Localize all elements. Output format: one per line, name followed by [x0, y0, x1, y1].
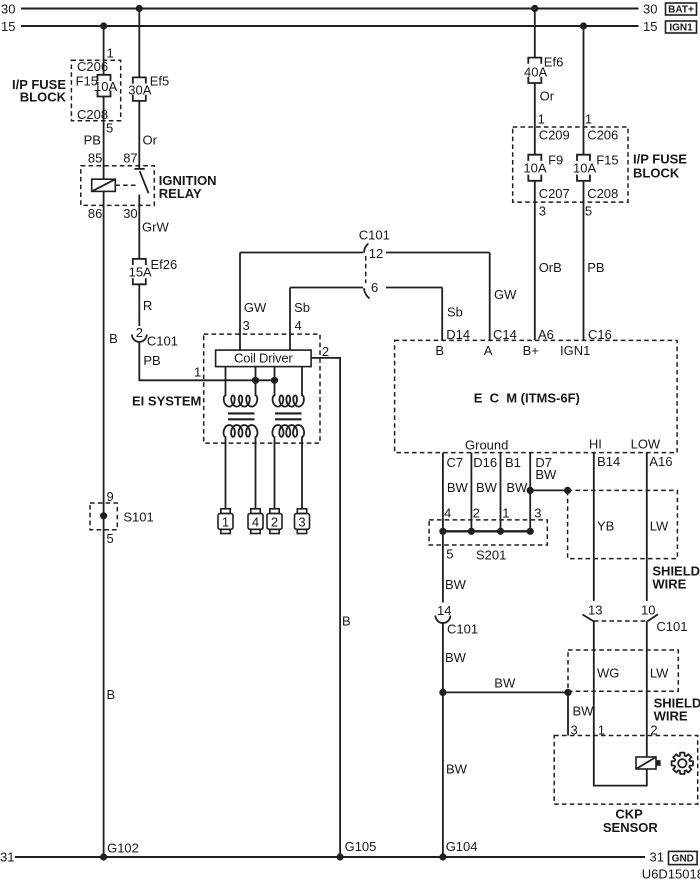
wire Sb: coil driver pin4 up and right to ECM D14	[290, 288, 442, 351]
wire: relay coil down to G102 (B wire)	[103, 191, 105, 857]
svg-text:BW: BW	[573, 704, 595, 719]
node: EI pin1 wire to coil A center	[252, 377, 259, 384]
svg-text:SENSOR: SENSOR	[603, 820, 659, 835]
fuse F9 10A	[523, 152, 563, 181]
ECM dashed box	[395, 340, 677, 452]
svg-text:C101: C101	[447, 622, 478, 637]
connector C101 dashed link (13-10)	[594, 620, 647, 622]
connector C101 pin 13	[583, 602, 603, 621]
svg-text:3: 3	[534, 506, 541, 521]
S201 bus node 2	[468, 528, 475, 535]
svg-text:G104: G104	[446, 839, 478, 854]
fuse F15 10A	[76, 74, 118, 97]
I/P fuse block (left) dashed box	[71, 60, 120, 120]
svg-text:Coil Driver: Coil Driver	[234, 351, 293, 366]
IGN1 terminal box	[666, 21, 697, 34]
svg-text:3: 3	[298, 514, 305, 529]
ignition coil A core	[228, 413, 255, 419]
svg-text:30: 30	[123, 206, 137, 221]
spark plug 3	[295, 509, 310, 534]
splice S101 node	[100, 512, 107, 519]
svg-text:30: 30	[1, 2, 15, 17]
wire: coil B secondary to spark plug 2	[274, 436, 276, 508]
svg-text:BW: BW	[506, 480, 528, 495]
svg-text:GW: GW	[244, 300, 267, 315]
svg-text:1: 1	[222, 514, 229, 529]
svg-text:15: 15	[643, 19, 657, 34]
svg-text:U6D15018: U6D15018	[642, 867, 700, 882]
coil driver pin 2 wire to G105 (B wire)	[311, 344, 340, 857]
shield wire dashed box (upper)	[568, 490, 678, 558]
svg-text:A6: A6	[538, 327, 554, 342]
svg-text:G102: G102	[107, 841, 139, 856]
svg-text:C101: C101	[147, 334, 178, 349]
wire shield drain down to CKP box	[567, 692, 569, 735]
svg-text:86: 86	[88, 206, 102, 221]
ignition coil A primary leads	[226, 367, 256, 397]
relay switch contact 87	[134, 169, 148, 193]
ignition coil B primary leads	[275, 367, 303, 397]
relay actuator dashed link	[115, 184, 136, 186]
svg-text:F9: F9	[548, 152, 563, 167]
relay coil	[92, 179, 116, 191]
S201 bus node 1	[497, 528, 504, 535]
svg-text:HI: HI	[589, 437, 602, 452]
svg-text:Ground: Ground	[465, 438, 508, 453]
svg-text:31: 31	[650, 850, 664, 865]
node D7 shield tap	[527, 487, 534, 494]
svg-text:C14: C14	[493, 327, 517, 342]
ground G102	[100, 841, 139, 861]
shield wire dashed box (lower)	[568, 650, 678, 691]
svg-text:Sb: Sb	[447, 305, 463, 320]
svg-text:S101: S101	[123, 510, 153, 525]
svg-text:6: 6	[371, 280, 378, 295]
svg-text:BW: BW	[445, 650, 467, 665]
svg-text:I/P FUSE: I/P FUSE	[633, 152, 687, 167]
svg-text:1: 1	[194, 365, 201, 380]
wire: D7 to shield wire box	[530, 489, 567, 491]
svg-text:Sb: Sb	[294, 300, 310, 315]
svg-text:87: 87	[123, 151, 137, 166]
svg-text:4: 4	[252, 514, 259, 529]
connector C101 pin 12	[364, 244, 383, 262]
svg-text:3: 3	[243, 318, 250, 333]
svg-text:F15: F15	[596, 152, 618, 167]
GND terminal box	[669, 851, 698, 864]
svg-text:10A: 10A	[573, 160, 596, 175]
connector C101 dashed link	[365, 256, 367, 283]
svg-text:PB: PB	[143, 353, 160, 368]
node BW branch to shield drain	[439, 689, 446, 696]
label IGNITION RELAY	[159, 173, 217, 201]
svg-text:C101: C101	[656, 619, 687, 634]
svg-text:BW: BW	[446, 762, 468, 777]
svg-text:PB: PB	[84, 132, 101, 147]
wire: fuse Ef6 to fuse F9	[534, 83, 536, 155]
node: rail15 to F15 (right) junction	[580, 22, 587, 29]
fuse F15 (right) 10A	[573, 152, 619, 181]
wire: fuse Ef26 to connector C101 pin2	[138, 284, 140, 326]
wire D7 to S201 pin3	[529, 453, 531, 532]
EI system dashed box	[204, 334, 320, 443]
wire: relay switch to fuse Ef26	[138, 195, 140, 259]
node: rail15 to F15 fuse junction	[100, 22, 107, 29]
svg-text:C206: C206	[77, 59, 108, 74]
svg-text:2: 2	[322, 344, 329, 359]
svg-text:E C M (ITMS-6F): E C M (ITMS-6F)	[474, 391, 580, 406]
svg-text:13: 13	[588, 602, 602, 617]
svg-text:D14: D14	[446, 327, 470, 342]
svg-text:OrB: OrB	[539, 260, 562, 275]
label CKP SENSOR	[603, 806, 659, 835]
svg-text:15: 15	[1, 19, 15, 34]
svg-text:GW: GW	[494, 287, 517, 302]
svg-text:PB: PB	[587, 260, 604, 275]
wire: C101 pin2 down and right to EI system pin 1 (PB)	[139, 342, 274, 380]
svg-text:5: 5	[446, 547, 453, 562]
svg-text:3: 3	[539, 203, 546, 218]
wire: fuse F9 to ECM A6 (OrB)	[534, 181, 536, 341]
svg-text:B14: B14	[597, 454, 620, 469]
svg-text:LW: LW	[650, 519, 669, 534]
ignition coil B core	[275, 413, 302, 419]
label I/P FUSE BLOCK (right)	[633, 152, 687, 181]
svg-text:1: 1	[585, 111, 592, 126]
splice S201 bus	[443, 530, 530, 532]
svg-text:9: 9	[107, 489, 114, 504]
svg-text:D16: D16	[473, 455, 497, 470]
svg-text:10A: 10A	[523, 160, 546, 175]
svg-text:10A: 10A	[94, 79, 117, 94]
node: rail30 to Ef6 fuse junction	[531, 5, 538, 12]
svg-text:WG: WG	[597, 666, 619, 681]
wire GW: coil driver pin3 up and right to ECM C14	[240, 253, 490, 351]
wire D16 to S201 pin2	[470, 453, 472, 532]
svg-text:G105: G105	[345, 839, 377, 854]
label I/P FUSE BLOCK (left)	[12, 77, 67, 105]
connector C101 pin 2	[132, 325, 178, 349]
ignition relay dashed box	[81, 166, 155, 206]
svg-text:B: B	[342, 614, 351, 629]
svg-text:BW: BW	[476, 480, 498, 495]
BAT+ terminal box	[666, 3, 697, 16]
svg-text:40A: 40A	[524, 64, 547, 79]
rail 31	[0, 850, 664, 865]
ignition coil A secondary winding	[224, 425, 258, 437]
wire BW branch to shield drain	[443, 691, 568, 693]
I/P fuse block (right) dashed box	[513, 127, 628, 202]
svg-text:S201: S201	[476, 548, 506, 563]
S201 bus node 4	[439, 528, 446, 535]
label SHIELD WIRE (upper)	[652, 563, 700, 591]
svg-text:1: 1	[502, 506, 509, 521]
svg-text:30: 30	[643, 2, 657, 17]
svg-text:BW: BW	[535, 467, 557, 482]
node: EI pin1 wire to coil B center	[271, 377, 278, 384]
svg-text:LOW: LOW	[631, 437, 661, 452]
node: rail30 to Ef5 fuse junction	[136, 5, 143, 12]
CKP pickup coil	[636, 757, 661, 769]
svg-text:B1: B1	[505, 455, 521, 470]
spark plug 2	[267, 509, 282, 534]
ground G105	[337, 839, 377, 861]
svg-text:C16: C16	[588, 327, 612, 342]
wire: rail15 down to fuse F15 left	[103, 26, 105, 75]
svg-text:85: 85	[88, 151, 102, 166]
svg-text:B: B	[109, 331, 118, 346]
svg-text:YB: YB	[597, 519, 614, 534]
svg-text:A16: A16	[649, 454, 672, 469]
wire: coil B secondary to spark plug 3	[301, 436, 303, 508]
svg-text:5: 5	[107, 531, 114, 546]
svg-text:C206: C206	[587, 128, 618, 143]
ignition coil B secondary winding	[272, 425, 304, 437]
svg-text:BLOCK: BLOCK	[633, 166, 680, 181]
svg-text:BW: BW	[445, 577, 467, 592]
svg-text:1: 1	[538, 111, 545, 126]
svg-text:5: 5	[585, 203, 592, 218]
wire A16 (LW) to connector 10	[646, 453, 648, 601]
wire: rail30 down to fuse Ef5	[138, 9, 140, 78]
svg-text:BW: BW	[447, 480, 469, 495]
wire: coil A secondary to spark plug 1	[225, 436, 227, 508]
svg-text:B+: B+	[523, 343, 539, 358]
svg-text:2: 2	[473, 506, 480, 521]
fuse Ef5 30A	[128, 73, 169, 101]
svg-text:WIRE: WIRE	[654, 709, 688, 724]
svg-text:BAT+: BAT+	[668, 5, 694, 16]
svg-text:C209: C209	[539, 128, 570, 143]
wire: fuse Ef5 to relay switch	[138, 101, 140, 169]
wire B14 (YB) to connector 13	[593, 453, 595, 601]
svg-text:C208: C208	[587, 186, 618, 201]
svg-text:C7: C7	[447, 455, 464, 470]
svg-text:BLOCK: BLOCK	[20, 90, 67, 105]
svg-text:31: 31	[0, 850, 14, 865]
wire: rail15 down to fuse F15 right	[583, 26, 585, 155]
svg-text:4: 4	[295, 318, 302, 333]
CKP sensor dashed box	[554, 736, 698, 805]
fuse Ef26 15A	[129, 257, 178, 284]
svg-text:LW: LW	[650, 666, 669, 681]
S201 bus node 3	[527, 528, 534, 535]
splice S201 dashed box	[429, 520, 547, 545]
svg-text:GND: GND	[672, 854, 694, 865]
svg-text:2: 2	[136, 325, 143, 340]
svg-text:IGN1: IGN1	[560, 343, 590, 358]
svg-text:B: B	[435, 343, 444, 358]
svg-text:EI SYSTEM: EI SYSTEM	[132, 394, 201, 409]
wire B1 to S201 pin1	[500, 453, 502, 532]
svg-text:Ef5: Ef5	[150, 73, 170, 88]
svg-text:15A: 15A	[129, 264, 152, 279]
svg-text:10: 10	[641, 602, 655, 617]
svg-text:Or: Or	[143, 132, 158, 147]
ignition coil B primary winding	[273, 395, 304, 406]
svg-text:12: 12	[369, 246, 383, 261]
wire: fuse F15 to ignition relay coil	[103, 97, 105, 180]
svg-text:R: R	[143, 298, 152, 313]
svg-text:RELAY: RELAY	[159, 186, 202, 201]
svg-text:14: 14	[437, 603, 451, 618]
svg-text:A: A	[484, 343, 493, 358]
node shield box corner	[564, 487, 571, 494]
ground G104	[439, 839, 477, 861]
wire: C101 pin14 down to G104	[442, 623, 444, 857]
svg-text:BW: BW	[494, 676, 516, 691]
fuse Ef6 40A	[524, 55, 563, 84]
svg-text:2: 2	[271, 514, 278, 529]
svg-text:C101: C101	[359, 228, 390, 243]
svg-text:IGN1: IGN1	[669, 23, 693, 34]
svg-text:5: 5	[106, 121, 113, 136]
svg-text:Ef26: Ef26	[151, 257, 178, 272]
svg-text:C207: C207	[539, 186, 570, 201]
svg-text:GrW: GrW	[142, 220, 169, 235]
wire C7 to S201 pin4 and on to G104	[442, 453, 444, 603]
svg-text:Or: Or	[540, 89, 555, 104]
wire: rail30 down to fuse Ef6	[534, 9, 536, 58]
connector C101 pin 14	[435, 603, 478, 637]
ignition coil A primary winding	[224, 395, 258, 406]
wire: pin10 to CKP pin2 (LW)	[646, 621, 648, 757]
rail 30	[1, 2, 657, 17]
connector C101 pin 10	[641, 602, 658, 621]
CKP reluctor gear	[672, 753, 693, 774]
wire: fuse F15 to ECM C16 (PB)	[583, 181, 585, 341]
spark plug 1	[218, 509, 233, 534]
svg-text:B: B	[107, 687, 116, 702]
coil driver box	[216, 350, 312, 367]
spark plug 4	[248, 509, 263, 534]
splice S101 dashed box	[90, 503, 117, 530]
wire: pin13 to CKP pin1 (WG)	[594, 621, 647, 785]
wire: coil A secondary to spark plug 4	[255, 436, 257, 508]
connector C101 pin 6	[364, 280, 378, 299]
rail 15	[1, 19, 657, 34]
svg-text:4: 4	[444, 506, 451, 521]
svg-text:30A: 30A	[128, 83, 151, 98]
label SHIELD WIRE (lower)	[654, 696, 700, 724]
svg-text:WIRE: WIRE	[652, 576, 686, 591]
node shield drain corner	[564, 689, 571, 696]
